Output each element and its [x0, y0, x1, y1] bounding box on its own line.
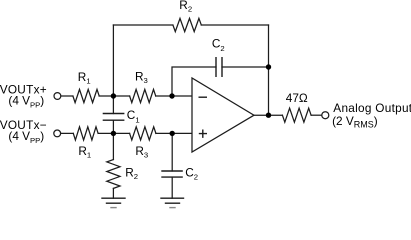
node dot minus input right — [169, 93, 174, 98]
wire top feedback horizontal — [113, 24, 268, 26]
op-amp U1 — [192, 78, 254, 152]
wire R2 bottom to ground — [112, 188, 114, 198]
wire minus input row — [61, 95, 192, 97]
terminal analog output — [322, 112, 329, 119]
svg-text:R3: R3 — [135, 144, 148, 159]
ground below C2 — [161, 198, 184, 203]
svg-text:R2: R2 — [125, 166, 138, 181]
svg-text:47Ω: 47Ω — [286, 91, 308, 105]
node dot output junction — [266, 113, 271, 118]
wire C2 feedback branch — [172, 67, 269, 96]
wire plus input row — [61, 132, 192, 134]
op-amp plus sign — [200, 130, 207, 137]
wire left feedback vertical — [112, 25, 114, 96]
wire to C2 bottom — [171, 133, 173, 171]
terminal VOUTx+ — [54, 93, 61, 100]
node dot minus input left — [111, 93, 116, 98]
resistor R2 (top feedback) — [173, 18, 201, 31]
svg-text:R1: R1 — [78, 70, 91, 85]
node dot plus input left — [111, 131, 116, 136]
wire to R2 bottom — [112, 133, 114, 159]
op-amp minus sign — [199, 96, 206, 98]
svg-text:C1: C1 — [127, 108, 140, 124]
wire op-amp output — [254, 114, 282, 116]
svg-text:C2: C2 — [212, 37, 225, 53]
resistor R3 (top) — [130, 89, 156, 102]
wire C1 vertical top — [112, 96, 114, 114]
resistor R1 (top input) — [73, 89, 99, 102]
ground below R2 — [102, 198, 125, 203]
capacitor C1 — [103, 114, 123, 121]
svg-text:(2 VRMS): (2 VRMS) — [332, 114, 378, 129]
svg-text:Analog Output: Analog Output — [333, 101, 411, 115]
resistor R2 (bottom shunt) — [107, 160, 120, 189]
capacitor C2 (top feedback) — [216, 58, 222, 77]
resistor R3 (bottom) — [130, 127, 156, 140]
resistor R1 (bottom input) — [73, 127, 98, 140]
svg-text:R3: R3 — [135, 70, 148, 85]
svg-text:C2: C2 — [185, 165, 198, 181]
svg-text:R2: R2 — [179, 0, 192, 14]
terminal VOUTx- — [54, 130, 61, 137]
wire C2 bottom to ground — [171, 177, 173, 198]
capacitor C2 (bottom shunt) — [162, 171, 182, 177]
node dot C2 feedback junction — [266, 64, 271, 69]
node dot plus input right — [170, 131, 175, 136]
wire to output terminal — [311, 114, 321, 116]
resistor 47ohm — [282, 108, 311, 122]
wire right feedback vertical — [268, 25, 270, 115]
svg-text:R1: R1 — [78, 144, 91, 159]
wire C1 vertical bottom — [112, 120, 114, 133]
